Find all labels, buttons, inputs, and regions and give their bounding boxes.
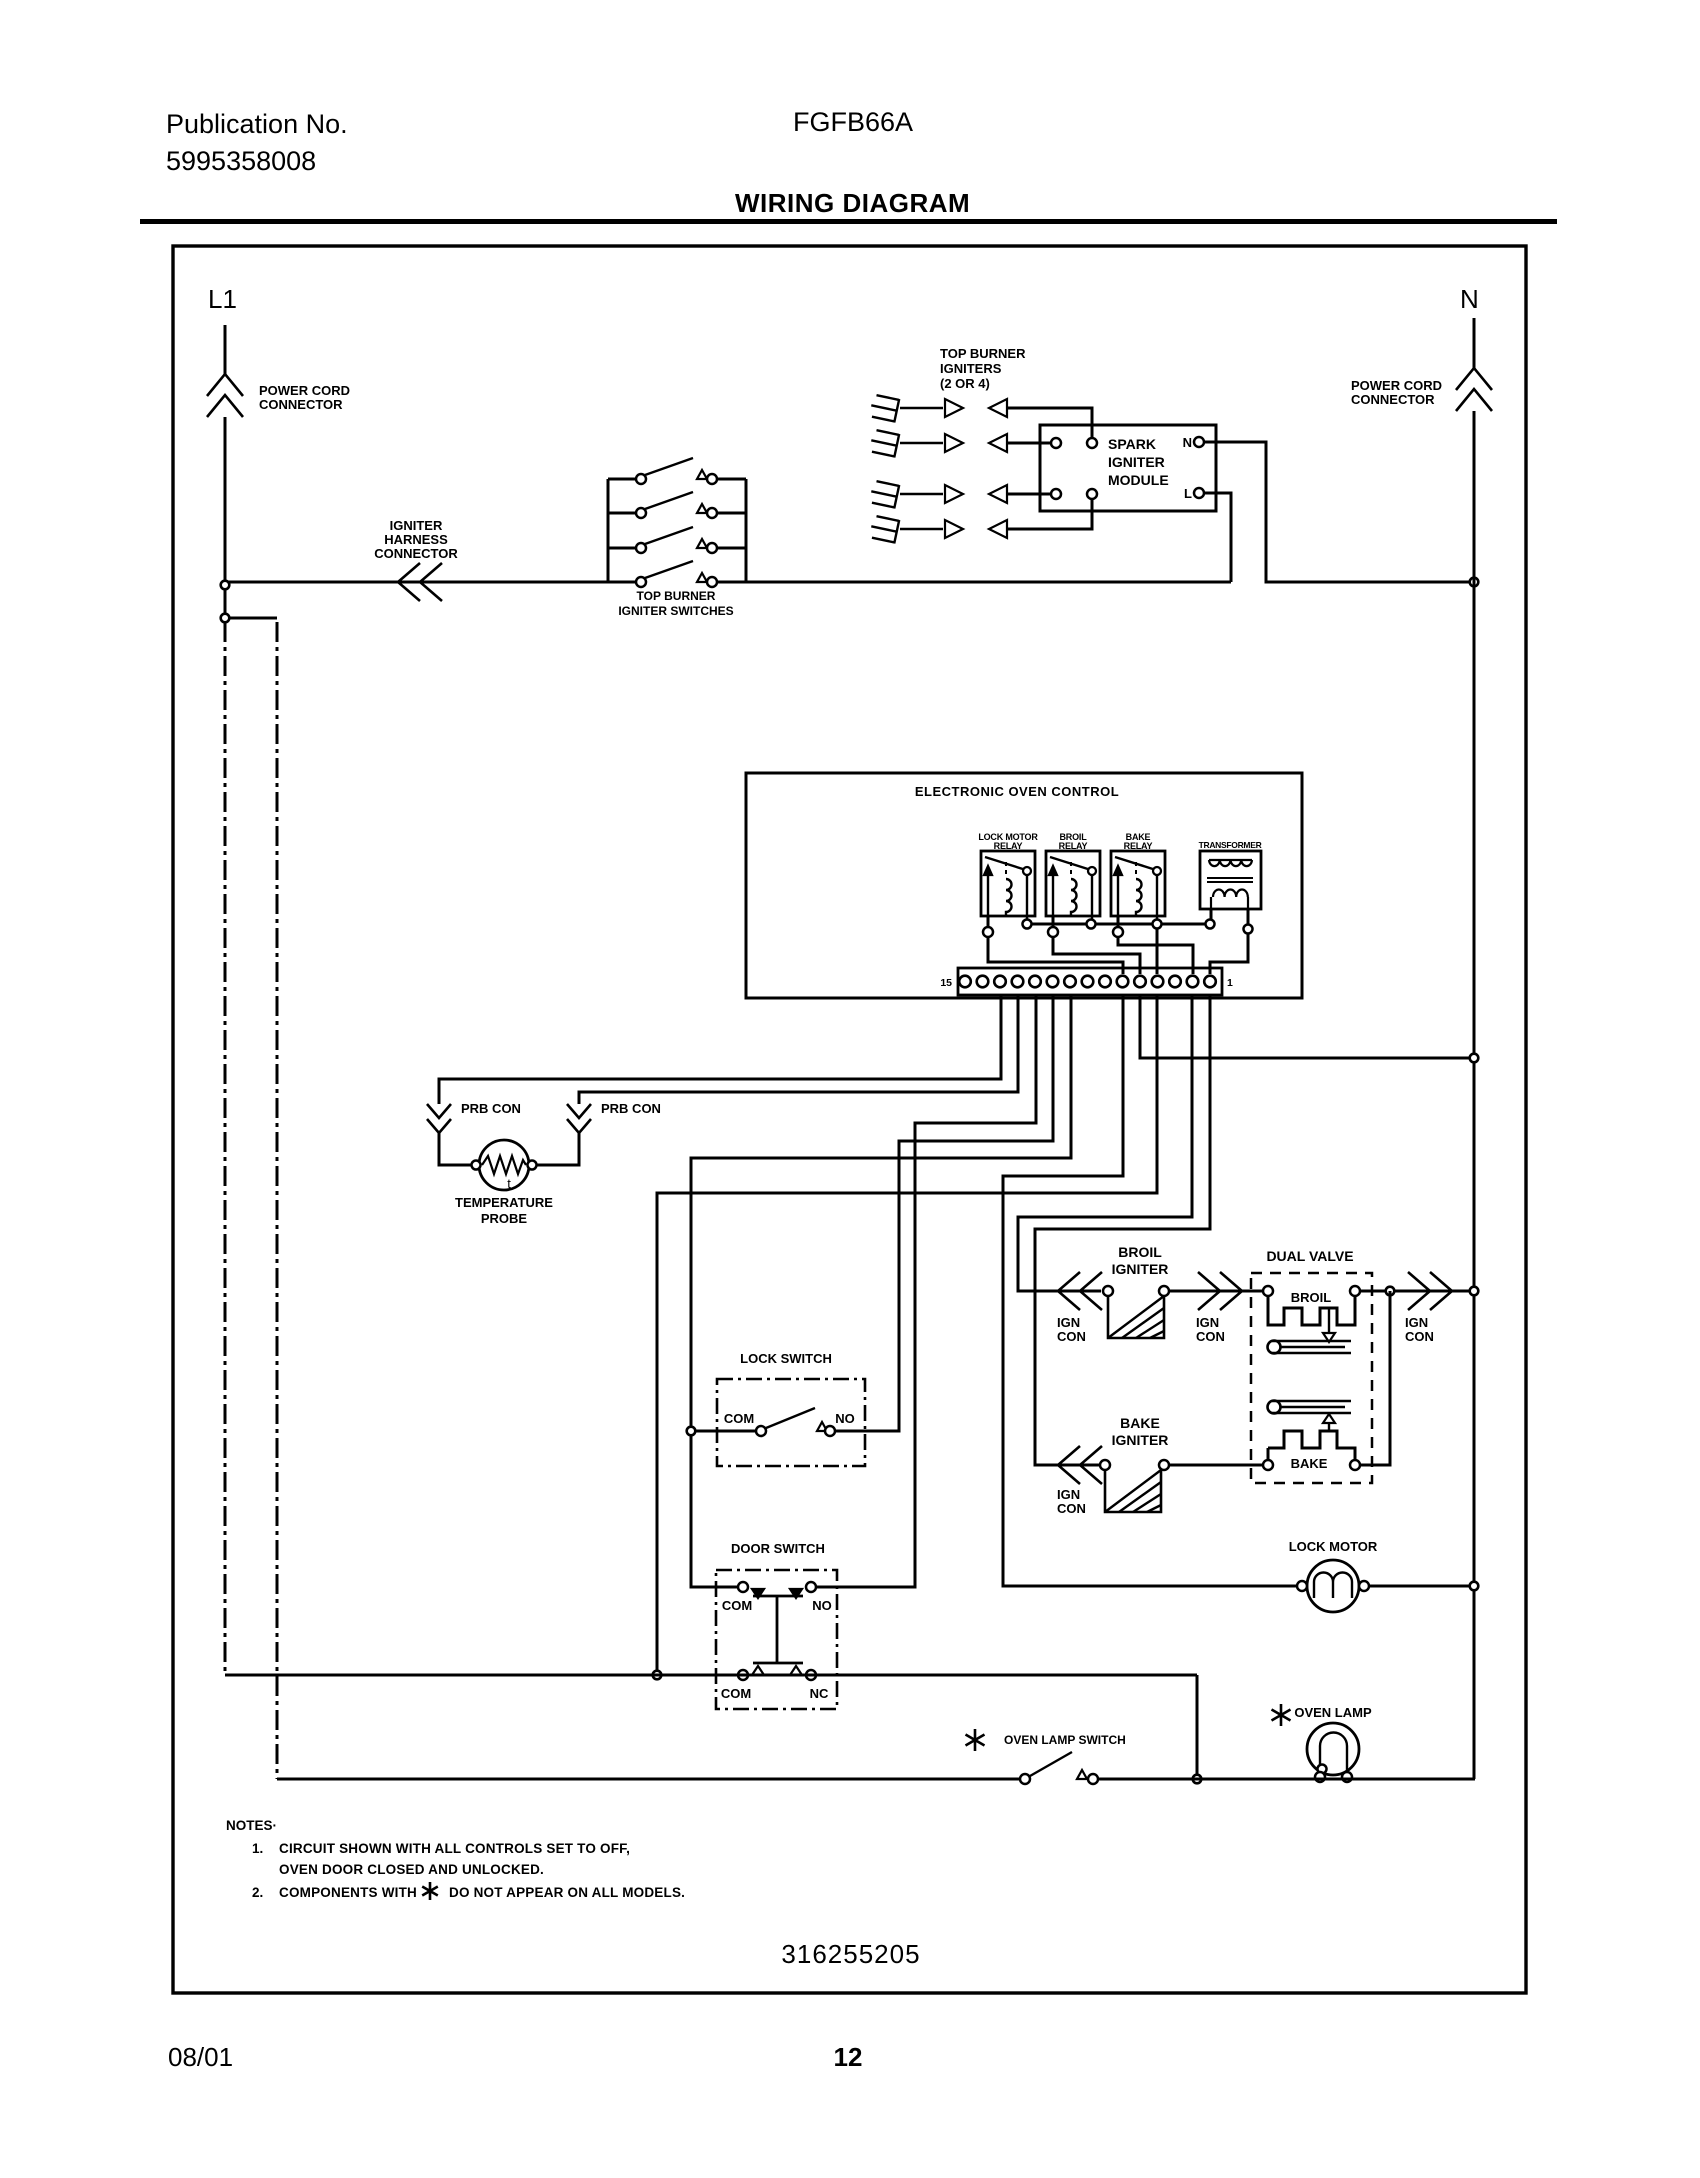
svg-text:COM: COM [724,1411,754,1426]
svg-text:IGNITER: IGNITER [390,518,443,533]
svg-text:DOOR SWITCH: DOOR SWITCH [731,1541,825,1556]
svg-text:CIRCUIT SHOWN WITH ALL CONTROL: CIRCUIT SHOWN WITH ALL CONTROLS SET TO O… [279,1841,630,1856]
svg-text:WIRING DIAGRAM: WIRING DIAGRAM [735,188,970,218]
svg-text:IGNITER: IGNITER [1108,454,1165,470]
svg-text:15: 15 [940,977,952,989]
svg-text:RELAY: RELAY [1124,841,1153,851]
svg-text:COM: COM [721,1686,751,1701]
svg-text:BAKE: BAKE [1291,1456,1328,1471]
svg-text:COMPONENTS WITH: COMPONENTS WITH [279,1885,417,1900]
svg-text:1: 1 [1227,977,1233,989]
svg-text:IGN: IGN [1057,1315,1080,1330]
svg-text:t: t [507,1176,511,1191]
svg-text:08/01: 08/01 [168,2042,233,2072]
svg-text:IGN: IGN [1196,1315,1219,1330]
svg-text:2.: 2. [252,1885,263,1900]
svg-text:IGN: IGN [1405,1315,1428,1330]
svg-text:CON: CON [1057,1501,1086,1516]
svg-text:IGNITER: IGNITER [1112,1432,1169,1448]
svg-text:12: 12 [834,2042,863,2072]
svg-text:NOTES·: NOTES· [226,1818,277,1833]
svg-text:5995358008: 5995358008 [166,146,316,176]
svg-text:ELECTRONIC OVEN CONTROL: ELECTRONIC OVEN CONTROL [915,784,1119,799]
svg-text:NO: NO [835,1411,855,1426]
svg-text:IGNITERS: IGNITERS [940,361,1002,376]
svg-text:TOP BURNER: TOP BURNER [637,589,716,603]
svg-text:PRB CON: PRB CON [601,1101,661,1116]
svg-text:POWER CORD: POWER CORD [259,383,350,398]
svg-text:CONNECTOR: CONNECTOR [259,397,343,412]
svg-text:HARNESS: HARNESS [384,532,448,547]
svg-text:CON: CON [1057,1329,1086,1344]
svg-text:TEMPERATURE: TEMPERATURE [455,1195,553,1210]
svg-text:IGNITER SWITCHES: IGNITER SWITCHES [618,604,733,618]
svg-text:CONNECTOR: CONNECTOR [1351,392,1435,407]
svg-text:Publication No.: Publication No. [166,109,348,139]
svg-text:NO: NO [812,1598,832,1613]
svg-text:N: N [1183,435,1192,450]
svg-text:OVEN LAMP: OVEN LAMP [1294,1705,1372,1720]
svg-text:MODULE: MODULE [1108,472,1169,488]
svg-text:BAKE: BAKE [1120,1415,1160,1431]
svg-text:CON: CON [1405,1329,1434,1344]
svg-text:LOCK SWITCH: LOCK SWITCH [740,1351,832,1366]
svg-text:IGN: IGN [1057,1487,1080,1502]
svg-text:1.: 1. [252,1841,263,1856]
svg-text:LOCK MOTOR: LOCK MOTOR [1289,1539,1378,1554]
svg-text:CONNECTOR: CONNECTOR [374,546,458,561]
svg-text:COM: COM [722,1598,752,1613]
svg-text:L1: L1 [208,284,237,314]
svg-text:(2 OR 4): (2 OR 4) [940,376,990,391]
svg-text:N: N [1460,284,1479,314]
svg-text:BROIL: BROIL [1291,1290,1332,1305]
svg-text:OVEN LAMP SWITCH: OVEN LAMP SWITCH [1004,1733,1126,1747]
svg-text:PROBE: PROBE [481,1211,528,1226]
svg-text:PRB CON: PRB CON [461,1101,521,1116]
svg-text:DUAL VALVE: DUAL VALVE [1266,1248,1353,1264]
svg-text:NC: NC [810,1686,829,1701]
svg-text:316255205: 316255205 [781,1939,920,1969]
svg-text:RELAY: RELAY [994,841,1023,851]
svg-text:RELAY: RELAY [1059,841,1088,851]
svg-text:L: L [1184,486,1192,501]
svg-text:BROIL: BROIL [1118,1244,1162,1260]
svg-text:DO NOT APPEAR ON ALL MODELS.: DO NOT APPEAR ON ALL MODELS. [449,1885,685,1900]
svg-text:IGNITER: IGNITER [1112,1261,1169,1277]
svg-text:OVEN DOOR CLOSED AND UNLOCKED.: OVEN DOOR CLOSED AND UNLOCKED. [279,1862,544,1877]
svg-text:TOP BURNER: TOP BURNER [940,346,1026,361]
svg-text:CON: CON [1196,1329,1225,1344]
svg-text:FGFB66A: FGFB66A [793,107,913,137]
svg-text:SPARK: SPARK [1108,436,1156,452]
svg-text:TRANSFORMER: TRANSFORMER [1199,840,1262,850]
svg-text:POWER CORD: POWER CORD [1351,378,1442,393]
